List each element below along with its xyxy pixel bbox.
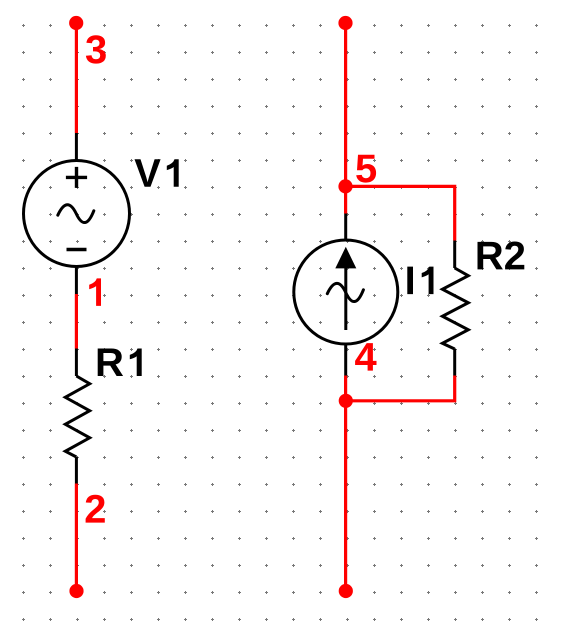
V1 label bbox=[135, 159, 179, 187]
node 4 junction dot bbox=[339, 394, 353, 408]
V1 top lead bbox=[75, 133, 78, 160]
I1 top lead bbox=[344, 214, 347, 242]
I1 sine tilde bbox=[327, 283, 363, 301]
wire: node 5 down to I1 (red) bbox=[344, 186, 347, 213]
wire: node 5 to R2 top (red L) bbox=[346, 186, 455, 240]
node 3 label bbox=[86, 35, 106, 63]
wire: R2 bottom to node 4 (red L) bbox=[346, 376, 455, 401]
resistor R1 bbox=[65, 349, 89, 484]
R2 top lead bbox=[453, 241, 456, 269]
node 4 label bbox=[355, 343, 376, 371]
V1 circle bbox=[24, 161, 130, 267]
R1 label bbox=[98, 349, 142, 377]
I1 circle bbox=[294, 240, 398, 344]
V1 bottom lead bbox=[75, 267, 78, 294]
current source I1 bbox=[294, 214, 398, 376]
R2 label bbox=[478, 242, 525, 270]
I1 bottom lead bbox=[344, 344, 347, 376]
wire: node 3 top red wire bbox=[75, 23, 78, 133]
R1 bottom lead bbox=[75, 457, 78, 484]
wire: right branch top red wire bbox=[344, 23, 347, 186]
wire: I1 bottom to node 4 (red) bbox=[344, 376, 347, 401]
node 1 label bbox=[89, 278, 101, 306]
R2 bottom lead bbox=[453, 349, 456, 376]
wire: node 4 down to bottom dot (red) bbox=[344, 401, 347, 591]
I1 arrowhead bbox=[335, 247, 356, 269]
node 5 junction dot bbox=[338, 179, 352, 193]
R1 top lead bbox=[75, 349, 78, 377]
bottom-right junction dot bbox=[339, 584, 353, 598]
node 5 label bbox=[356, 155, 376, 183]
top-right junction dot bbox=[338, 16, 352, 30]
bottom-left junction dot bbox=[69, 584, 83, 598]
node 3 junction dot bbox=[69, 16, 83, 30]
I1 label bbox=[407, 267, 433, 295]
resistor R2 bbox=[442, 241, 468, 376]
voltage source V1 bbox=[24, 133, 130, 294]
node 1 wire (red between V1 and R1) bbox=[75, 294, 78, 349]
V1 sine tilde bbox=[58, 205, 94, 223]
wire: node 2 red wire to bottom bbox=[75, 484, 78, 592]
I1 arrow shaft bbox=[344, 264, 347, 330]
V1 minus sign bbox=[67, 248, 87, 252]
R1 zigzag body bbox=[65, 376, 89, 457]
V1 plus sign bbox=[66, 167, 87, 188]
node 2 label bbox=[86, 495, 105, 523]
R2 zigzag body bbox=[442, 268, 468, 349]
